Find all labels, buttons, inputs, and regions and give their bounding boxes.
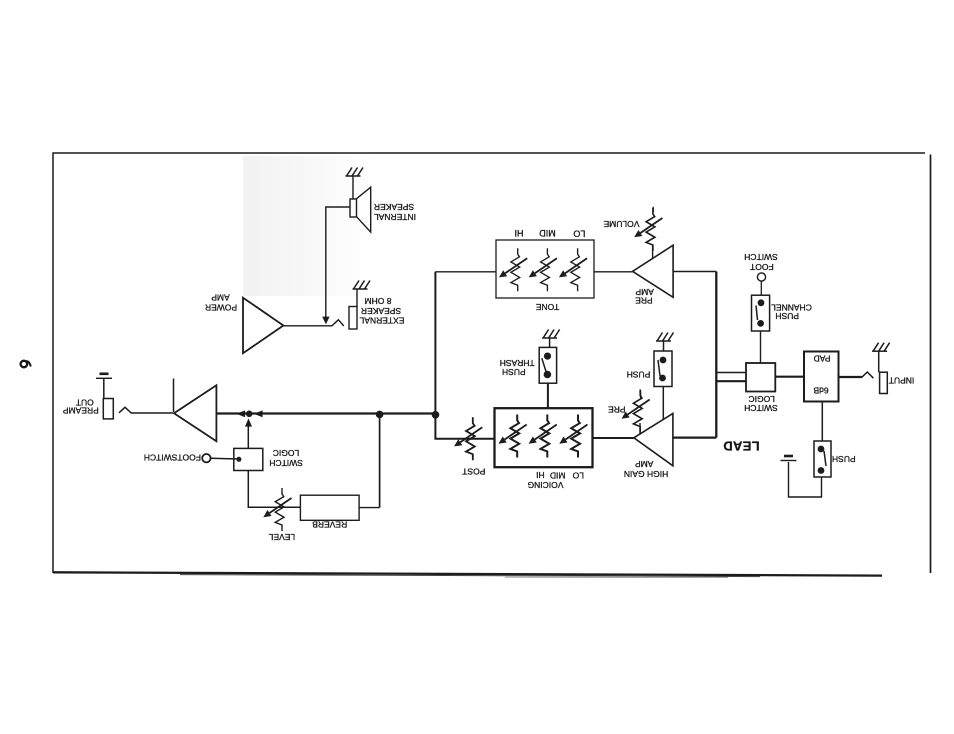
svg-text:SWITCH: SWITCH [269,458,303,468]
svg-text:8 OHM: 8 OHM [365,296,392,306]
svg-text:PRE: PRE [608,404,626,414]
svg-text:SWITCH: SWITCH [744,252,778,262]
svg-text:PUSH: PUSH [502,367,526,377]
svg-text:PUSH: PUSH [832,454,856,464]
svg-text:LO: LO [572,470,584,480]
svg-text:POWER: POWER [205,302,237,312]
svg-text:LO: LO [573,229,585,239]
svg-text:PUSH: PUSH [627,369,651,379]
svg-text:HIGH GAIN: HIGH GAIN [624,469,668,479]
svg-text:MID: MID [550,470,566,480]
svg-text:INPUT: INPUT [889,375,915,385]
svg-text:6dB: 6dB [813,386,828,396]
svg-text:VOLUME: VOLUME [603,219,639,229]
svg-text:HI: HI [515,228,524,238]
svg-text:PUSH: PUSH [775,311,799,321]
svg-text:LOGIC: LOGIC [748,394,774,404]
svg-text:LOGIC: LOGIC [273,448,299,458]
svg-text:FOOT: FOOT [750,262,774,272]
svg-text:PRE: PRE [635,296,653,306]
svg-text:HI: HI [536,470,545,480]
svg-text:SWITCH: SWITCH [744,403,778,413]
svg-text:FOOTSWITCH: FOOTSWITCH [144,453,201,463]
svg-text:SPEAKER: SPEAKER [374,202,414,212]
svg-text:MID: MID [539,228,556,238]
svg-text:INTERNAL: INTERNAL [374,212,416,222]
svg-text:LEVEL: LEVEL [268,532,295,542]
svg-text:LEAD: LEAD [723,439,760,454]
svg-text:PAD: PAD [814,354,831,364]
svg-text:PREAMP: PREAMP [63,405,99,415]
svg-text:VOICING: VOICING [528,480,564,490]
svg-text:CHANNEL: CHANNEL [771,303,812,313]
svg-text:THRASH: THRASH [500,358,535,368]
svg-text:AMP: AMP [635,287,654,297]
svg-text:POST: POST [462,467,485,477]
svg-text:AMP: AMP [635,459,654,469]
svg-text:AMP: AMP [211,292,230,302]
svg-text:TONE: TONE [535,302,559,312]
svg-text:REVERB: REVERB [312,520,347,530]
svg-text:EXTERNAL: EXTERNAL [359,315,404,325]
svg-text:SPEAKER: SPEAKER [361,306,401,316]
